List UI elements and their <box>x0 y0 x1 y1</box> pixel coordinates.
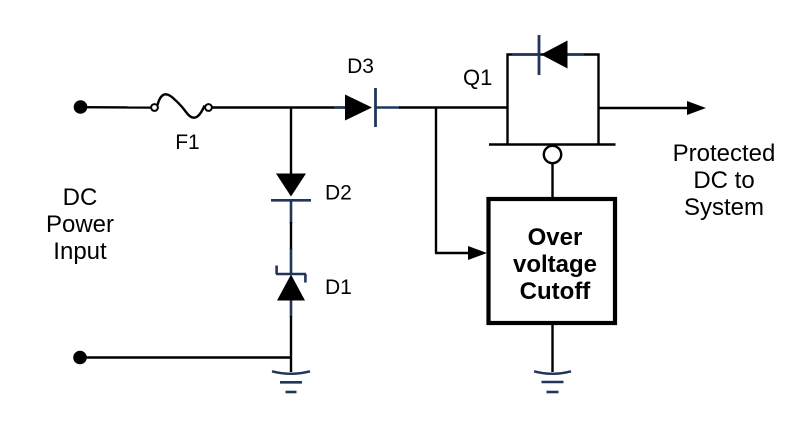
Q1 body diode <box>512 35 584 75</box>
svg-text:D3: D3 <box>347 55 374 78</box>
wire: fuse to D3 <box>213 106 347 108</box>
gate bubble of Q1 <box>544 146 561 163</box>
output arrowhead <box>687 101 706 115</box>
wire: D1 to ground <box>290 316 292 372</box>
svg-text:D2: D2 <box>325 182 352 205</box>
wire: cutoff box to ground <box>551 325 553 372</box>
transistor Q1 (pass MOSFET body) <box>489 55 616 145</box>
terminal dot: DC input return <box>73 351 87 365</box>
zener diode D1 <box>276 249 306 317</box>
terminal dot: DC input positive <box>74 100 88 114</box>
wire: input terminal to fuse <box>80 106 151 109</box>
svg-text:Power: Power <box>46 211 114 238</box>
wire: bubble to cutoff box <box>551 164 553 199</box>
svg-text:voltage: voltage <box>513 251 597 278</box>
svg-text:DC to: DC to <box>693 167 754 194</box>
svg-text:System: System <box>684 194 764 221</box>
arrowhead into cutoff box <box>468 246 487 260</box>
over voltage cutoff block <box>489 199 616 323</box>
wire: D2 to D1 <box>290 222 292 250</box>
svg-text:Over: Over <box>528 224 583 251</box>
wire: D3 to Q1 <box>399 106 508 108</box>
fuse F1 <box>151 94 212 117</box>
svg-text:Q1: Q1 <box>463 65 492 90</box>
svg-text:DC: DC <box>63 184 98 211</box>
wire: tap to over voltage cutoff <box>435 252 470 254</box>
svg-text:D1: D1 <box>325 276 352 299</box>
wire: branch down to D2 (node at x=291) <box>290 108 292 175</box>
label Protected DC to System <box>673 140 776 221</box>
ground (input side) <box>272 371 310 392</box>
svg-text:Cutoff: Cutoff <box>520 278 592 305</box>
ground (cutoff) <box>534 371 571 392</box>
svg-text:F1: F1 <box>175 131 200 154</box>
wire: bottom return to ground node <box>80 356 291 358</box>
wire: Q1 output <box>599 107 689 109</box>
diode D3 <box>334 88 400 127</box>
svg-text:Protected: Protected <box>673 140 776 167</box>
diode D2 <box>271 174 311 224</box>
wire: tap node down to cutoff input <box>435 108 437 254</box>
svg-text:Input: Input <box>53 238 107 265</box>
label DC Power Input <box>46 184 114 265</box>
